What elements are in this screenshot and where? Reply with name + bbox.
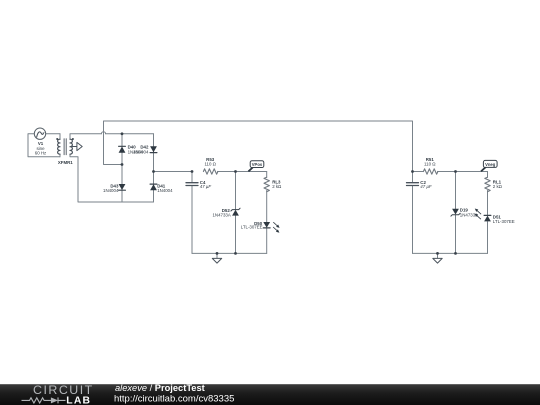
wire D19 column — [455, 172, 457, 254]
junction node C4 — [191, 170, 194, 173]
wire top rail and bypass — [104, 121, 413, 172]
transformer XFMR1 primary coil — [58, 139, 60, 154]
node Vneg flag — [481, 160, 497, 171]
wire C4 column — [191, 172, 193, 254]
transformer XFMR1 secondary coil — [70, 139, 72, 154]
wire to D42 column — [106, 133, 154, 135]
transformer XFMR1 core — [64, 139, 66, 155]
wire V1 loop left — [28, 134, 60, 157]
wire D40 D43 column — [121, 134, 123, 202]
diode D40 — [119, 147, 126, 153]
junction node bypass-D40col — [121, 163, 124, 166]
logo diode — [51, 397, 58, 403]
zener D52 bar — [231, 208, 240, 211]
diode D42 bar — [150, 152, 157, 154]
zener D19 triangle — [452, 209, 459, 215]
ground right — [433, 258, 442, 263]
wire R53 to corner — [218, 171, 267, 173]
wire V1 to primary — [46, 133, 60, 135]
diode D43 — [119, 184, 126, 190]
capacitor C4 plates — [186, 183, 198, 186]
node VPos flag — [248, 161, 263, 172]
ground left — [212, 258, 221, 263]
capacitor C2 plates — [407, 183, 419, 186]
junction node transformer-D40 — [121, 132, 124, 135]
svg-text:2 kΩ: 2 kΩ — [272, 184, 282, 189]
svg-text:110 Ω: 110 Ω — [204, 162, 216, 167]
diode D40 bar — [119, 145, 126, 147]
svg-text:1N4733A: 1N4733A — [212, 213, 230, 218]
LED D51 arrows — [475, 209, 481, 219]
svg-text:1N4733A: 1N4733A — [460, 213, 478, 218]
voltage source V1 — [34, 128, 45, 139]
LED D50 bar — [263, 227, 270, 229]
svg-text:XFMR1: XFMR1 — [58, 160, 73, 165]
svg-text:VPos: VPos — [252, 162, 263, 167]
diode D41 bar — [150, 183, 157, 185]
svg-text:http://circuitlab.com/cv83335: http://circuitlab.com/cv83335 — [114, 394, 234, 405]
wire R51 to corner — [438, 171, 488, 173]
svg-text:alexeve / ProjectTest: alexeve / ProjectTest — [115, 383, 205, 393]
wire main positive rail — [154, 171, 193, 173]
svg-text:1N4004: 1N4004 — [157, 188, 173, 193]
junction node bridge output — [152, 170, 155, 173]
junction node C2 — [411, 170, 414, 173]
wire RL1 leads — [487, 172, 489, 254]
LED D51 bar — [484, 214, 491, 216]
wire D42 D41 column — [153, 134, 155, 202]
diode D42 — [150, 146, 157, 152]
wire secondary bottom to bridge bottom rail — [70, 154, 154, 202]
junction node D19 bottom — [454, 252, 457, 255]
svg-text:Vneg: Vneg — [485, 162, 496, 167]
svg-text:1N4004: 1N4004 — [103, 188, 119, 193]
junction node right ground — [436, 252, 439, 255]
wire hop over bypass — [101, 132, 105, 134]
resistor RL1 — [485, 177, 490, 191]
svg-text:LTL-307EE: LTL-307EE — [493, 219, 515, 224]
sine arrow head of V1 — [43, 132, 45, 134]
junction node D52 — [234, 170, 237, 173]
junction node left ground — [216, 252, 219, 255]
LED D50 arrows — [273, 222, 279, 232]
svg-text:110 Ω: 110 Ω — [424, 162, 436, 167]
LED D51 triangle — [484, 216, 491, 222]
wire left ground stem — [216, 253, 218, 258]
wire right ground stem — [437, 253, 439, 258]
junction node D52 bottom — [234, 252, 237, 255]
zener D19 bar — [451, 213, 460, 216]
svg-text:LAB: LAB — [66, 396, 91, 405]
wire primary bottom lead — [59, 154, 61, 157]
wire secondary top to bridge — [70, 134, 101, 139]
logo resistor squiggle — [22, 398, 52, 403]
wire RL3 leads — [266, 172, 268, 254]
wire D52 column — [235, 172, 237, 254]
diode D41 — [150, 184, 157, 190]
svg-text:2 kΩ: 2 kΩ — [493, 184, 503, 189]
LED D50 triangle — [263, 222, 270, 228]
wire right rail R51 lead — [413, 171, 424, 173]
svg-text:47 µF: 47 µF — [420, 184, 432, 189]
svg-text:1N4004: 1N4004 — [133, 149, 149, 154]
resistor R53 — [203, 169, 217, 174]
wire right bottom rail — [413, 252, 488, 254]
svg-text:47 µF: 47 µF — [200, 184, 212, 189]
wire primary top lead — [59, 134, 61, 139]
resistor R51 — [423, 169, 437, 174]
transformer tap arrow — [71, 146, 77, 148]
transformer phase dot primary — [56, 138, 58, 140]
wire left bottom rail — [192, 252, 267, 254]
junction node D19 — [454, 170, 457, 173]
wire C2 column — [412, 172, 414, 254]
diode D43 bar — [119, 189, 126, 191]
transformer phase dot secondary — [72, 138, 74, 140]
resistor RL3 — [264, 177, 269, 191]
svg-text:60 Hz: 60 Hz — [35, 151, 46, 156]
zener D52 triangle — [232, 210, 239, 216]
svg-text:LTL-307EE: LTL-307EE — [241, 225, 263, 230]
